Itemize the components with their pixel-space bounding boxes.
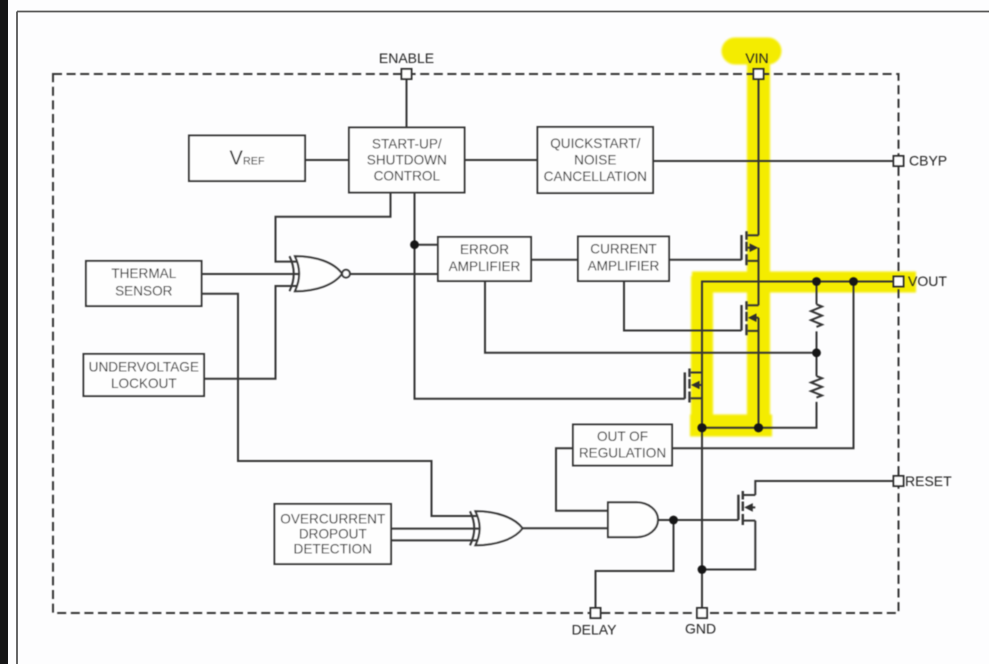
svg-text:SHUTDOWN: SHUTDOWN — [367, 153, 447, 168]
svg-text:CONTROL: CONTROL — [374, 169, 441, 184]
svg-text:NOISE: NOISE — [574, 153, 616, 168]
svg-text:VOUT: VOUT — [908, 273, 947, 289]
svg-text:START-UP/: START-UP/ — [372, 137, 442, 152]
svg-text:QUICKSTART/: QUICKSTART/ — [550, 136, 640, 151]
svg-text:LOCKOUT: LOCKOUT — [111, 376, 177, 391]
svg-text:CBYP: CBYP — [909, 153, 947, 169]
svg-text:V: V — [230, 148, 244, 170]
svg-text:AMPLIFIER: AMPLIFIER — [588, 259, 660, 274]
svg-text:VIN: VIN — [745, 50, 768, 66]
svg-text:REGULATION: REGULATION — [579, 446, 666, 461]
svg-text:DETECTION: DETECTION — [294, 542, 373, 557]
svg-text:CANCELLATION: CANCELLATION — [544, 169, 647, 184]
svg-text:OVERCURRENT: OVERCURRENT — [280, 512, 385, 527]
svg-text:UNDERVOLTAGE: UNDERVOLTAGE — [89, 360, 199, 375]
svg-text:CURRENT: CURRENT — [590, 242, 656, 257]
svg-text:OUT OF: OUT OF — [597, 429, 648, 444]
svg-text:REF: REF — [243, 156, 265, 168]
svg-text:GND: GND — [685, 621, 716, 637]
svg-text:RESET: RESET — [905, 473, 952, 489]
svg-text:ERROR: ERROR — [460, 242, 509, 257]
svg-text:DELAY: DELAY — [572, 622, 618, 638]
svg-text:DROPOUT: DROPOUT — [299, 527, 367, 542]
svg-text:THERMAL: THERMAL — [111, 266, 176, 281]
svg-text:ENABLE: ENABLE — [379, 50, 434, 66]
svg-text:AMPLIFIER: AMPLIFIER — [449, 259, 521, 274]
svg-text:SENSOR: SENSOR — [115, 283, 173, 298]
